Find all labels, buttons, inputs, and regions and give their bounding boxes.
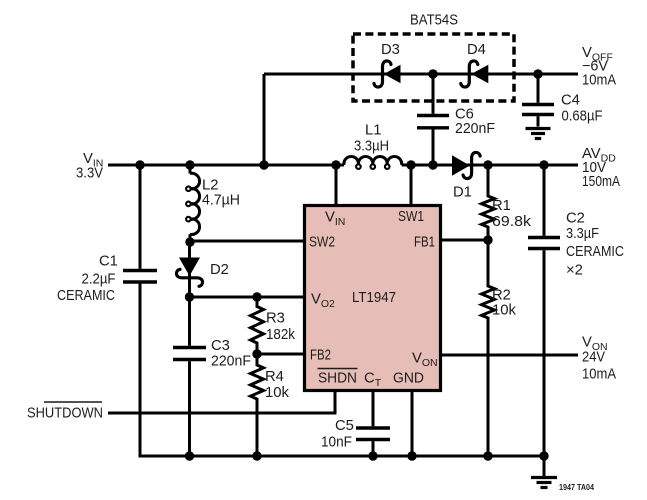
inductor L2: [190, 173, 200, 234]
resistor R4: [251, 354, 264, 456]
svg-text:3.3V: 3.3V: [76, 166, 103, 182]
diode D2 vertical wire: [188, 242, 191, 346]
resistor R3: [251, 297, 264, 354]
inductor L1: [344, 156, 402, 165]
svg-text:SHDN: SHDN: [318, 371, 357, 387]
capacitor C5: [356, 426, 390, 429]
svg-text:CERAMIC: CERAMIC: [57, 288, 115, 304]
node AVDD/R1: [483, 160, 492, 169]
svg-text:3.3µH: 3.3µH: [354, 139, 389, 155]
node D3/D4/C6: [428, 69, 437, 78]
svg-text:C3: C3: [211, 338, 230, 354]
capacitor C6: [417, 114, 449, 117]
wire L2 stubs: [189, 165, 192, 174]
svg-text:10k: 10k: [492, 303, 517, 319]
svg-text:69.8k: 69.8k: [492, 214, 532, 230]
svg-text:×2: ×2: [566, 263, 583, 279]
svg-text:L2: L2: [202, 178, 218, 194]
svg-text:2.2µF: 2.2µF: [82, 272, 116, 288]
svg-text:R3: R3: [266, 311, 285, 327]
svg-text:0.68µF: 0.68µF: [562, 109, 603, 125]
diode D4: [471, 65, 488, 83]
node SW1/C6: [428, 160, 437, 169]
svg-text:3.3µF: 3.3µF: [566, 226, 599, 242]
svg-text:10mA: 10mA: [582, 73, 616, 89]
wire FB2 line: [257, 353, 303, 356]
svg-text:C4: C4: [561, 93, 580, 109]
diode D2: [179, 258, 200, 277]
resistor R1: [482, 165, 495, 240]
svg-text:10mA: 10mA: [582, 367, 616, 383]
svg-text:10k: 10k: [265, 385, 290, 401]
node rail/gnd: [539, 451, 548, 460]
wire GND pin: [411, 392, 414, 456]
svg-text:D2: D2: [210, 262, 229, 278]
svg-text:1947 TA04: 1947 TA04: [559, 483, 594, 492]
svg-text:C1: C1: [99, 254, 118, 270]
wire VIN rail: [108, 164, 344, 167]
capacitor C4: [522, 103, 554, 106]
wire rail right of L1: [402, 164, 578, 167]
svg-text:CERAMIC: CERAMIC: [566, 244, 624, 260]
capacitor C1: [123, 269, 157, 272]
svg-text:150mA: 150mA: [582, 174, 620, 190]
svg-text:D3: D3: [381, 42, 400, 58]
wire VO2 line: [190, 296, 304, 299]
wire diode row horizontal: [264, 73, 578, 76]
svg-text:D1: D1: [453, 185, 472, 201]
node VIN/L2: [185, 160, 194, 169]
svg-text:C2: C2: [566, 211, 585, 227]
node FB2: [252, 349, 261, 358]
ground main: [543, 456, 546, 476]
node AVDD/C2: [539, 160, 548, 169]
IC U1 LT1947: [305, 206, 441, 391]
svg-text:R1: R1: [492, 198, 511, 214]
svg-text:FB2: FB2: [310, 348, 331, 364]
svg-text:10nF: 10nF: [321, 435, 352, 451]
wire SW1 pin stub: [410, 165, 413, 204]
wire C4 vertical: [537, 74, 540, 103]
node SW1: [406, 160, 415, 169]
wire vertical from VIN rail up to diode row: [263, 74, 266, 165]
svg-text:SW1: SW1: [398, 209, 424, 225]
svg-text:220nF: 220nF: [211, 354, 251, 370]
wire C6 vertical: [432, 74, 435, 114]
svg-text:SW2: SW2: [309, 235, 335, 251]
resistor R2: [482, 240, 495, 456]
svg-text:220nF: 220nF: [455, 121, 495, 137]
node VIN pin: [331, 160, 340, 169]
svg-text:R4: R4: [265, 369, 284, 385]
node VIN/C1: [135, 160, 144, 169]
wire C1 vertical and bottom rail: [139, 165, 142, 269]
node dots: [135, 69, 548, 460]
dashed box BAT54S: [353, 34, 514, 101]
wire VIN pin stub: [335, 165, 338, 204]
wire CT pin / C5: [372, 392, 375, 426]
svg-text:4.7µH: 4.7µH: [202, 193, 240, 209]
node L2/D2: [185, 237, 194, 246]
svg-text:C5: C5: [335, 418, 354, 434]
node rail/GND: [407, 451, 416, 460]
wire VON line: [442, 354, 578, 357]
diode D1: [452, 155, 470, 176]
capacitor C3: [173, 346, 206, 349]
svg-text:24V: 24V: [582, 350, 605, 366]
svg-text:SHUTDOWN: SHUTDOWN: [27, 406, 103, 422]
svg-text:182k: 182k: [266, 327, 296, 343]
node rail/C3: [185, 451, 194, 460]
svg-text:LT1947: LT1947: [352, 290, 396, 306]
node rail/R4: [252, 451, 261, 460]
wire FB1 line: [442, 239, 488, 242]
node rail/C5: [368, 451, 377, 460]
node VOFF/C4: [533, 69, 542, 78]
diode D3: [384, 65, 401, 83]
node D2/VO2: [185, 292, 194, 301]
capacitor C2: [543, 165, 546, 236]
svg-text:GND: GND: [393, 371, 424, 387]
node VO2/R3: [252, 292, 261, 301]
svg-text:R2: R2: [492, 288, 511, 304]
svg-text:L1: L1: [365, 123, 381, 139]
svg-text:FB1: FB1: [414, 235, 435, 251]
ground C4: [526, 127, 551, 130]
node rail/R2: [483, 451, 492, 460]
wire SW2 line: [190, 240, 303, 243]
wire SHUTDOWN line: [108, 392, 335, 413]
svg-text:D4: D4: [467, 42, 486, 58]
node FB1: [483, 235, 492, 244]
node VIN/riser: [259, 160, 268, 169]
svg-text:BAT54S: BAT54S: [410, 13, 458, 29]
